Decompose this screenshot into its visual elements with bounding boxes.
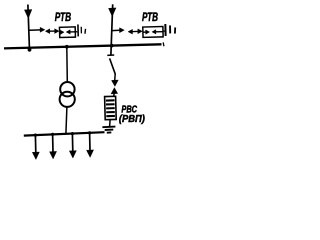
tubular arrester F2 body [143,27,163,38]
transformer T1 [60,82,74,96]
disconnector QS blade [110,58,116,74]
svg-text:РТВ: РТВ [142,10,158,24]
arrow on L2 [109,8,117,17]
wire transformer to LV bus [66,107,67,134]
junction dot transformer tap [65,45,69,49]
wire gap to arrester FV [113,93,116,96]
wire arrester to ground [109,120,112,127]
tick at busbar right end [162,42,165,46]
arrow on branch F2 [120,28,125,33]
junction dot L2-bus [110,44,114,48]
svg-text:РТВ: РТВ [55,10,72,24]
tubular arrester F1 body [59,27,75,38]
spark gap down arrow [112,80,119,86]
spark gap up arrow [111,88,118,94]
feeder arrow A2 [50,133,57,159]
valve arrester FV body [105,96,117,119]
exhaust tick F1 [84,29,87,34]
feeder arrow A3 [69,132,76,158]
junction dot L1-bus [28,48,32,52]
ground symbol [102,127,115,133]
disconnector QS fixed contact tick [107,54,114,56]
wire bottom busbar [24,132,105,135]
spark gap double arrow F2 [128,29,142,34]
wire incoming line L1 [28,5,30,51]
wire branch to arrester F1 [29,29,40,31]
svg-text:(РВП): (РВП) [119,113,145,125]
electrode bars F2 [163,24,175,36]
arrow on L1 [24,10,32,19]
wire branch to arrester F2 [112,29,120,31]
spark gap double arrow F1 [45,29,59,34]
feeder arrow A4 [87,131,94,157]
wire blade to gap arrow [114,74,117,81]
exhaust tick F2 [174,27,177,33]
feeder arrow A1 [32,134,39,160]
electrode bars F1 [75,24,86,36]
wire bus to transformer [66,47,69,82]
arrow on branch F1 [40,27,45,32]
wire top busbar [4,44,162,48]
wire incoming line L2 (continues through bus to disconnector) [111,4,113,55]
